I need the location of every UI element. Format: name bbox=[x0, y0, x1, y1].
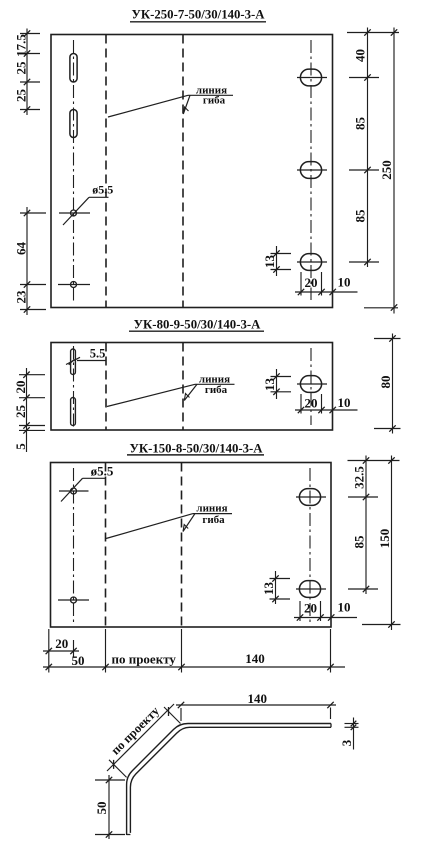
thickness dim 3 line bbox=[353, 718, 355, 750]
svg-text:13: 13 bbox=[262, 378, 277, 392]
hole B1 plate3 crosshair bbox=[296, 496, 326, 498]
extension plate3 bottom-left corner down bbox=[48, 629, 50, 673]
extension plate3 bottom-right corner down bbox=[330, 629, 332, 673]
extension hole B1 left side down plate2 bbox=[300, 394, 302, 414]
extension line plate1 top right bbox=[347, 32, 399, 34]
slot hole A2 plate1 bbox=[70, 110, 77, 138]
extension tick at hole C1 bbox=[20, 212, 46, 214]
leader 5.5 plate2 arrow through slot bbox=[66, 357, 80, 364]
svg-text:150: 150 bbox=[377, 529, 392, 549]
hole B3 plate1 crosshair bbox=[297, 261, 327, 263]
extension hole B2 left side down plate3 bbox=[299, 601, 301, 621]
extension 50 bottom bbox=[95, 834, 125, 836]
svg-text:3: 3 bbox=[339, 739, 354, 746]
plate UK-80 outline bbox=[51, 343, 333, 431]
dimension line right-A plate3 bbox=[365, 456, 367, 595]
centerline right holes plate1 bbox=[310, 40, 312, 300]
extension 50 top bbox=[95, 779, 125, 781]
svg-text:УК-150-8-50/30/140-3-А: УК-150-8-50/30/140-3-А bbox=[129, 441, 263, 455]
svg-text:20: 20 bbox=[305, 275, 318, 290]
bend line 2 plate1 bbox=[182, 35, 184, 308]
svg-text:гиба: гиба bbox=[205, 384, 228, 396]
dimension line right plate2 (80) bbox=[392, 334, 394, 434]
svg-text:13: 13 bbox=[261, 582, 276, 596]
bend line 2 plate3 bbox=[181, 463, 183, 628]
leader bend1 plate1 bbox=[108, 95, 188, 117]
dimension 13 plate3 line bbox=[275, 571, 277, 604]
hole B1 plate3 bbox=[299, 489, 320, 506]
svg-text:23: 23 bbox=[13, 290, 28, 304]
hole C1 plate1 (d5.5) bbox=[71, 210, 77, 216]
extension centerline holes down bbox=[73, 640, 75, 657]
svg-text:40: 40 bbox=[352, 49, 367, 62]
svg-text:85: 85 bbox=[351, 535, 366, 549]
svg-text:250: 250 bbox=[379, 160, 394, 180]
dimension line left-bottom plate1 bbox=[26, 207, 28, 315]
extension tick 17.5 top bbox=[20, 33, 40, 35]
extension tick at hole C2 bbox=[20, 284, 46, 286]
svg-text:5: 5 bbox=[13, 443, 28, 450]
dimension line right-B plate3 (150) bbox=[391, 456, 393, 631]
extension tick plate2 bottom bbox=[19, 429, 45, 431]
dimension line right-A plate1 bbox=[367, 28, 369, 268]
plate UK-150 outline bbox=[51, 463, 332, 628]
extension at hole B1 plate3 bbox=[348, 496, 378, 498]
extension bend line1 down bbox=[105, 629, 107, 673]
svg-text:13: 13 bbox=[262, 255, 277, 269]
svg-text:50: 50 bbox=[72, 653, 85, 668]
extension at hole B3 bbox=[349, 261, 379, 263]
extension from lower bend corner bbox=[109, 760, 127, 778]
dimension line right-B plate1 (250) bbox=[393, 28, 395, 314]
hole B3 plate1 bbox=[300, 254, 321, 271]
extension tick slot1 bottom plate2 bbox=[19, 374, 45, 376]
svg-text:гиба: гиба bbox=[203, 94, 226, 106]
hole B1 plate1 bbox=[300, 69, 321, 86]
extension tick at slot1 bottom bbox=[20, 81, 40, 83]
profile plate outer line bbox=[127, 724, 331, 836]
svg-text:УК-80-9-50/30/140-3-А: УК-80-9-50/30/140-3-А bbox=[134, 317, 261, 331]
extension tick slot2 top plate2 bbox=[19, 397, 45, 399]
dimension 13 plate2 line bbox=[276, 369, 278, 399]
extension tick at slot2 top bbox=[20, 109, 40, 111]
extension hole B3 right side down bbox=[321, 272, 323, 296]
plate UK-250 outline bbox=[51, 35, 333, 308]
svg-text:УК-250-7-50/30/140-3-А: УК-250-7-50/30/140-3-А bbox=[131, 8, 265, 22]
profile plate inner line bbox=[130, 727, 331, 833]
dimension po proektu diagonal line bbox=[107, 704, 174, 771]
svg-text:10: 10 bbox=[338, 275, 351, 290]
extension 140 right bbox=[330, 708, 332, 720]
extension line plate2 top right bbox=[374, 338, 401, 340]
svg-text:ø5.5: ø5.5 bbox=[92, 182, 113, 196]
svg-text:25: 25 bbox=[13, 61, 28, 75]
profile right end cap bbox=[330, 724, 332, 728]
dimension line left-top plate1 bbox=[26, 29, 28, 116]
dimension line 20/10 plate2 bbox=[295, 409, 358, 411]
hole C2 plate3 (d5.5) bbox=[71, 597, 77, 603]
extension hole B3 left side down bbox=[300, 272, 302, 296]
svg-text:80: 80 bbox=[378, 376, 393, 389]
leader bend1 plate2 bbox=[107, 384, 195, 406]
leader bend2 plate3 with arrow bbox=[183, 514, 195, 532]
hole C2 plate3 crosshair bbox=[58, 599, 89, 601]
dimension line 20/10 plate3 bbox=[294, 617, 357, 619]
extension tick at slot1 top bbox=[20, 53, 40, 55]
extension line plate1 bottom right bbox=[364, 307, 398, 309]
svg-text:20: 20 bbox=[304, 601, 317, 616]
bend line 1 plate3 bbox=[105, 463, 107, 628]
hole B1 plate2 bbox=[300, 376, 321, 393]
dimension 50 profile line bbox=[108, 775, 110, 839]
dimension line 50 / po proektu / 140 bbox=[43, 666, 345, 668]
svg-text:25: 25 bbox=[13, 405, 28, 419]
svg-text:20: 20 bbox=[305, 396, 318, 411]
hole B1 plate1 crosshair bbox=[297, 77, 327, 79]
svg-text:140: 140 bbox=[247, 691, 267, 706]
centerline left holes plate3 bbox=[73, 468, 75, 622]
dimension line 20/10 plate1 bbox=[295, 291, 358, 293]
svg-text:85: 85 bbox=[352, 209, 367, 223]
extension from upper bend corner bbox=[164, 707, 181, 724]
svg-text:17.5: 17.5 bbox=[13, 34, 28, 57]
svg-text:линия: линия bbox=[196, 502, 227, 514]
dimension line 140 profile bbox=[176, 704, 336, 706]
hole C2 plate1 (d5.5) bbox=[71, 282, 77, 288]
leader bend2 plate1 with arrow bbox=[183, 95, 190, 114]
svg-text:32.5: 32.5 bbox=[351, 466, 366, 489]
extension at hole B2 bbox=[349, 169, 379, 171]
hole B2 plate3 crosshair bbox=[296, 588, 326, 590]
hole C2 plate1 crosshair bbox=[58, 284, 90, 286]
dimension 13 plate1 line bbox=[276, 246, 278, 276]
hole B2 plate3 bbox=[299, 581, 320, 598]
bend line 2 plate2 bbox=[182, 343, 184, 431]
svg-text:5.5: 5.5 bbox=[90, 347, 106, 361]
leader bend2 plate2 with arrow bbox=[184, 384, 197, 400]
hole B2 plate1 bbox=[300, 162, 321, 179]
leader bend1 plate3 bbox=[106, 514, 193, 539]
bend line 1 plate1 bbox=[105, 35, 107, 308]
leader d5.5 plate3 bbox=[61, 478, 83, 501]
extension line plate3 top right bbox=[348, 460, 400, 462]
svg-text:ø5.5: ø5.5 bbox=[91, 464, 114, 479]
extension bend line2 down bbox=[181, 629, 183, 673]
extension line plate3 bottom right bbox=[362, 624, 401, 626]
leader d5.5 plate1 bbox=[63, 197, 89, 225]
dimension line 20 bottom-left bbox=[43, 650, 79, 652]
svg-text:10: 10 bbox=[338, 600, 351, 615]
svg-text:25: 25 bbox=[13, 89, 28, 103]
hole C1 plate3 crosshair bbox=[59, 490, 89, 492]
svg-text:гиба: гиба bbox=[202, 514, 225, 526]
centerline left holes plate2 bbox=[73, 346, 75, 427]
extension at hole B2 plate3 bbox=[348, 588, 378, 590]
extension tick slot2 bottom plate2 bbox=[19, 425, 45, 427]
slot hole A2 plate2 bbox=[71, 398, 76, 426]
svg-text:20: 20 bbox=[55, 636, 68, 651]
hole B2 plate1 crosshair bbox=[297, 169, 327, 171]
hole C1 plate1 crosshair bbox=[59, 212, 90, 214]
extension tick at plate1 bottom bbox=[20, 309, 46, 311]
bend line 1 plate2 bbox=[105, 343, 107, 431]
extension line plate2 bottom right bbox=[374, 428, 401, 430]
dimension line left plate2 bbox=[26, 368, 28, 452]
svg-text:по проекту: по проекту bbox=[111, 651, 176, 666]
svg-text:85: 85 bbox=[352, 117, 367, 131]
svg-text:50: 50 bbox=[94, 802, 109, 815]
profile bottom end cap bbox=[127, 834, 131, 836]
centerline right holes plate3 bbox=[309, 468, 311, 622]
slot hole A1 plate2 bbox=[71, 349, 76, 375]
svg-text:10: 10 bbox=[338, 395, 351, 410]
svg-text:20: 20 bbox=[13, 381, 28, 394]
extension 140 left bbox=[180, 708, 182, 721]
extension hole B1 right side down plate2 bbox=[321, 394, 323, 414]
extension at hole B1 bbox=[349, 77, 379, 79]
hole B1 plate2 crosshair bbox=[297, 383, 327, 385]
extension hole B2 right side down plate3 bbox=[320, 601, 322, 621]
centerline left holes plate1 bbox=[73, 40, 75, 302]
svg-text:64: 64 bbox=[13, 242, 28, 256]
svg-text:140: 140 bbox=[245, 651, 265, 666]
centerline right hole plate2 bbox=[310, 348, 312, 425]
hole C1 plate3 (d5.5) bbox=[71, 488, 77, 494]
slot hole A1 plate1 bbox=[70, 54, 77, 83]
